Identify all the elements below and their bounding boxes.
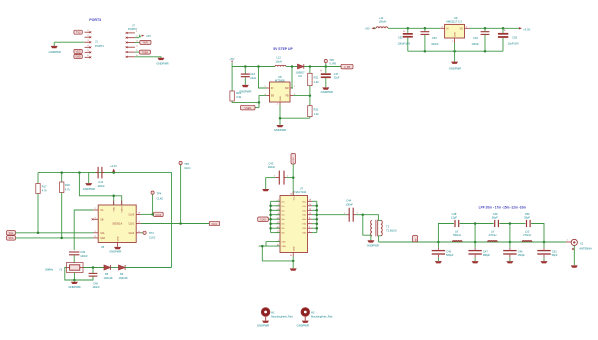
connector J7 pin 4: [126, 45, 139, 48]
wire OE tie-down: [259, 242, 294, 261]
svg-text:TP3: TP3: [149, 231, 154, 235]
text J7 PORT2: [128, 23, 137, 31]
svg-text:C44: C44: [346, 199, 351, 203]
IC U7 right pin stubs: [293, 201, 312, 256]
svg-text:C46: C46: [518, 249, 523, 253]
svg-text:L12: L12: [277, 56, 282, 60]
wire LPF top row risers: [438, 224, 544, 243]
ground GNDPWR (C45): [435, 261, 442, 263]
wire +5V rail to U9: [388, 27, 440, 29]
wire C44 node down to T1 secondary return: [363, 215, 371, 236]
wire U7 outputs to C44: [317, 214, 347, 216]
ground GNDPWR (Y2): [68, 280, 80, 289]
svg-text:PORT2: PORT2: [128, 27, 137, 31]
svg-text:GND: GND: [280, 96, 282, 101]
svg-text:VDDO: VDDO: [122, 206, 124, 213]
svg-text:100uH: 100uH: [379, 20, 387, 24]
svg-text:CLK0: CLK0: [155, 215, 161, 217]
capacitor C48 12pF: [451, 212, 459, 227]
svg-text:TP5: TP5: [184, 162, 189, 166]
wire U9 GND pin down: [454, 43, 456, 62]
inductor L10 270nH: [522, 229, 532, 242]
net flag SCL: [7, 231, 16, 236]
svg-text:560pF: 560pF: [446, 253, 454, 257]
capacitor C39 100nF: [69, 250, 88, 262]
svg-text:100nF: 100nF: [268, 165, 276, 169]
svg-text:R18: R18: [65, 183, 70, 187]
capacitor C50 39pF: [524, 212, 530, 227]
ground GNDPWR (C46): [506, 261, 513, 263]
svg-text:CLK0: CLK0: [128, 214, 134, 216]
svg-text:C50: C50: [525, 212, 530, 216]
connector J1 pin 4: [85, 45, 92, 48]
test point TP6: [324, 58, 336, 67]
svg-text:4: 4: [136, 45, 138, 47]
wire IN pin to rail: [259, 67, 267, 89]
svg-text:CLK0: CLK0: [260, 220, 266, 222]
svg-text:ANTENNA: ANTENNA: [579, 246, 592, 250]
junction: [37, 232, 40, 235]
svg-text:GNDPWR: GNDPWR: [109, 249, 121, 253]
svg-text:270nH: 270nH: [489, 233, 497, 237]
svg-text:CLK1: CLK1: [128, 224, 134, 226]
capacitor C55 10uF/16V: [498, 28, 519, 51]
capacitor C41 100nF: [91, 167, 114, 188]
svg-text:U5: U5: [101, 245, 105, 249]
junction: [292, 176, 295, 179]
svg-text:C52: C52: [398, 36, 403, 40]
IC U7 left pin numbers: [277, 200, 279, 247]
ground GNDPWR (T1): [367, 235, 379, 247]
wire output bus vertical: [316, 201, 318, 232]
junction: [60, 237, 63, 240]
wire VSEN node to EN pin: [255, 96, 267, 108]
wire +5V to rail: [232, 63, 275, 67]
svg-text:R22: R22: [314, 108, 319, 112]
svg-text:T2,6&3,6: T2,6&3,6: [386, 228, 397, 232]
net flag TX0: [74, 30, 82, 34]
svg-text:100nF: 100nF: [472, 42, 480, 46]
svg-text:R21: R21: [314, 75, 319, 79]
svg-text:J1: J1: [95, 40, 98, 44]
diode D4 1N5817: [296, 64, 306, 78]
ground GNDPWR (H2): [297, 321, 309, 328]
svg-text:GND: GND: [118, 236, 120, 241]
wire +3.3V to U7 VCC: [292, 164, 294, 196]
junction: [151, 213, 154, 216]
svg-text:CLK0: CLK0: [157, 196, 164, 200]
crystal Y2 26MHz: [45, 263, 83, 273]
svg-text:1: 1: [136, 31, 138, 33]
IC U7 left pin stubs: [276, 201, 280, 246]
svg-text:V_PB: V_PB: [329, 62, 336, 66]
junction: [78, 171, 81, 174]
net flag CLK0 (U7 input): [258, 217, 269, 222]
mounting pad H2: [301, 308, 333, 321]
wire R17 to SCL: [37, 194, 39, 233]
svg-text:270nH: 270nH: [523, 233, 531, 237]
ground GNDPWR (C17): [321, 87, 333, 94]
svg-text:U7: U7: [300, 187, 304, 191]
svg-text:MountingHole_Pad: MountingHole_Pad: [311, 315, 333, 318]
wire R19 to VSEN node: [232, 101, 259, 102]
wire FB pin to divider: [293, 95, 310, 97]
svg-text:100uF/16V: 100uF/16V: [398, 41, 411, 45]
ground GNDPWR (C41): [83, 173, 95, 192]
svg-text:GNDPWR: GNDPWR: [274, 128, 286, 132]
svg-text:X1: X1: [580, 242, 584, 246]
svg-text:VI: VI: [446, 29, 449, 31]
svg-text:C49: C49: [493, 212, 498, 216]
net flag VSEN: [241, 105, 256, 110]
svg-text:+5V: +5V: [230, 57, 235, 61]
test point TP4: [151, 191, 164, 214]
svg-text:100nF: 100nF: [80, 254, 88, 258]
supply +3.3V output arrow: [519, 27, 531, 31]
svg-text:D4: D4: [299, 74, 303, 78]
connector J7 pin 1: [126, 31, 139, 34]
junction nodes LPF: [437, 241, 545, 244]
svg-text:3: 3: [87, 40, 89, 42]
svg-text:EN: EN: [271, 96, 275, 98]
svg-text:1: 1: [87, 30, 89, 32]
ground GNDPWR (C51): [541, 261, 548, 263]
junction: [112, 195, 115, 198]
wire SW pin to rail: [292, 67, 293, 89]
svg-text:1N4148: 1N4148: [119, 277, 128, 280]
IC U7 input pin labels: [282, 201, 287, 248]
svg-text:LPF 20m - 17m -15m -12m -10m: LPF 20m - 17m -15m -12m -10m: [479, 206, 527, 210]
svg-text:4.7k: 4.7k: [65, 187, 71, 191]
wire J7 pin6 to ground: [135, 57, 161, 58]
antenna connector X1: [566, 239, 592, 250]
svg-text:GNDPWR: GNDPWR: [239, 89, 251, 93]
junction nodes output bus: [316, 205, 319, 230]
wire +3.3V rail: [38, 173, 172, 268]
wire crystal left pin to ground node: [65, 268, 75, 281]
wire crystal right pin: [83, 267, 104, 269]
svg-text:C17: C17: [334, 72, 339, 76]
svg-text:GNDPWR: GNDPWR: [156, 61, 168, 65]
svg-text:12: 12: [309, 213, 311, 215]
svg-text:U9: U9: [454, 16, 458, 20]
svg-text:16: 16: [309, 204, 311, 206]
svg-text:74ACT244: 74ACT244: [294, 190, 307, 194]
svg-text:56pF: 56pF: [552, 253, 558, 257]
capacitor C49 56pF: [492, 212, 499, 227]
svg-text:U8: U8: [278, 75, 282, 79]
svg-text:H2: H2: [311, 311, 315, 315]
inductor L8 550nH: [453, 229, 463, 242]
resistor R19: [230, 67, 242, 102]
wire input bus vertical: [270, 201, 272, 232]
svg-text:22uF: 22uF: [334, 76, 340, 80]
svg-text:100nF: 100nF: [431, 42, 439, 46]
wire VDD branch: [79, 173, 121, 205]
svg-text:CLK2: CLK2: [149, 235, 156, 239]
junction: [258, 101, 261, 104]
IC U5 SI5351A: [98, 205, 136, 243]
svg-text:L10: L10: [525, 229, 530, 233]
ground GNDPWR (U9): [449, 62, 461, 71]
net flag GND: [74, 54, 82, 58]
svg-text:L9: L9: [491, 229, 494, 233]
svg-text:22uF: 22uF: [250, 76, 256, 80]
text J1 PORT1: [95, 40, 104, 48]
svg-text:1.2k: 1.2k: [314, 80, 320, 84]
svg-text:VDD: VDD: [76, 51, 81, 54]
svg-text:GNDPWR: GNDPWR: [257, 323, 269, 327]
wire: [286, 66, 298, 68]
svg-text:TXP1: TXP1: [142, 42, 149, 45]
svg-text:GNDPWR: GNDPWR: [68, 285, 80, 289]
svg-text:GNDPWR: GNDPWR: [321, 90, 333, 94]
svg-text:C53: C53: [432, 36, 437, 40]
svg-text:C45: C45: [446, 249, 451, 253]
svg-text:C16: C16: [250, 72, 255, 76]
IC U7 right pin numbers: [290, 200, 311, 258]
connector J1 pin 3: [85, 40, 92, 43]
net flag TXP1: [135, 40, 151, 44]
capacitor C47 180pF: [468, 242, 490, 261]
wire SDA: [16, 237, 94, 239]
connector J1 pin 5: [85, 50, 92, 53]
net flag SDA: [7, 236, 16, 241]
svg-text:CLK1: CLK1: [184, 166, 191, 170]
ground GNDPWR (C47): [472, 261, 479, 263]
connector J1 pin 2: [85, 35, 92, 38]
svg-text:+: +: [504, 29, 506, 33]
connector J7 pin 5: [126, 50, 139, 53]
ground GNDPWR (U7): [290, 257, 297, 271]
svg-text:1: 1: [567, 240, 569, 242]
svg-text:100nF: 100nF: [97, 184, 105, 188]
svg-text:SCL: SCL: [9, 232, 14, 235]
svg-text:1N5817: 1N5817: [296, 70, 306, 74]
svg-text:12pF: 12pF: [451, 216, 457, 220]
svg-text:SI5351A: SI5351A: [112, 222, 122, 226]
svg-text:Y2: Y2: [59, 268, 63, 272]
wire: [111, 267, 119, 269]
capacitor C51 56pF: [537, 242, 558, 261]
wire U9 out rail: [470, 27, 519, 29]
svg-text:10uF/16V: 10uF/16V: [508, 41, 520, 45]
svg-text:4.7k: 4.7k: [42, 189, 48, 193]
supply +5V (J7 pin2): [135, 34, 151, 38]
svg-text:1.2k: 1.2k: [314, 112, 320, 116]
capacitor C52 100uF/16V: [398, 28, 413, 51]
svg-text:C41: C41: [98, 180, 103, 184]
net flag VDD: [74, 49, 82, 53]
wire net GND to J1 pin3: [54, 41, 84, 43]
svg-text:TP6: TP6: [329, 58, 334, 62]
svg-text:XB: XB: [100, 219, 104, 221]
svg-text:550nH: 550nH: [453, 233, 461, 237]
svg-text:150pF: 150pF: [518, 253, 526, 257]
svg-text:PORT1: PORT1: [95, 44, 104, 48]
wire T1 to LPF: [379, 236, 381, 242]
svg-text:7: 7: [309, 222, 310, 224]
svg-text:4: 4: [87, 45, 89, 47]
svg-text:2: 2: [87, 35, 89, 37]
capacitor C45 560pF: [432, 242, 454, 261]
svg-text:CLK2: CLK2: [128, 233, 134, 235]
svg-text:H1: H1: [271, 311, 275, 315]
svg-text:3: 3: [309, 231, 310, 233]
svg-text:C39: C39: [80, 250, 85, 254]
supply +5V: [230, 57, 235, 63]
svg-text:VCC: VCC: [293, 196, 295, 201]
net flag RF (vertical): [413, 236, 418, 242]
connector J7 pin 2: [126, 36, 139, 39]
svg-text:20: 20: [290, 193, 292, 195]
net flag CLK0: [141, 212, 163, 217]
svg-text:2: 2: [277, 104, 279, 106]
capacitor C43 100nF: [266, 161, 294, 184]
svg-text:5V STEP UP: 5V STEP UP: [273, 47, 293, 51]
svg-text:C40: C40: [93, 282, 98, 286]
svg-text:3.3k: 3.3k: [236, 95, 242, 99]
junction nodes LDO bottom rail: [424, 50, 487, 53]
svg-text:GNDPWR: GNDPWR: [367, 244, 379, 248]
svg-text:5: 5: [87, 50, 89, 52]
ground GNDPWR (U8): [274, 118, 286, 132]
diode D6 1N4148: [119, 265, 128, 280]
wire XA: [74, 210, 93, 250]
capacitor C44 100nF: [344, 199, 363, 222]
svg-text:C43: C43: [269, 161, 274, 165]
svg-text:PORT3: PORT3: [89, 18, 101, 22]
wire R22 bottom to GND node: [280, 105, 310, 118]
capacitor C53 100nF: [421, 28, 439, 51]
svg-text:J7: J7: [132, 23, 135, 27]
svg-text:14: 14: [309, 209, 311, 211]
svg-text:L8: L8: [455, 229, 458, 233]
connector J1 pin 1: [85, 30, 92, 33]
junction: [179, 222, 182, 225]
svg-text:C51: C51: [552, 249, 557, 253]
svg-text:VO: VO: [460, 29, 464, 31]
wire R18 to SDA: [61, 193, 63, 238]
svg-text:+3.3V: +3.3V: [110, 164, 117, 168]
svg-text:MountingHole_Pad: MountingHole_Pad: [271, 315, 293, 318]
wire VDD pin drop: [113, 196, 115, 205]
svg-text:AMS1117-3.3: AMS1117-3.3: [446, 20, 462, 24]
svg-text:GNDPWR: GNDPWR: [83, 187, 95, 191]
svg-text:VSEN: VSEN: [245, 107, 252, 110]
svg-text:9: 9: [309, 217, 310, 219]
svg-text:GNDPWR: GNDPWR: [49, 50, 61, 54]
junction nodes LPF top row: [474, 222, 511, 225]
wire input rows: [268, 201, 280, 232]
capacitor C40 100nF: [74, 268, 100, 290]
IC U8 pin stubs: [264, 86, 296, 105]
IC U9 pin stubs: [440, 26, 469, 43]
wire LPF main line: [379, 241, 566, 243]
net flag V_PB: [341, 64, 353, 69]
svg-text:TP4: TP4: [157, 191, 162, 195]
svg-text:+: +: [320, 69, 322, 73]
svg-text:T1: T1: [386, 225, 390, 229]
svg-text:1N4148: 1N4148: [104, 277, 113, 280]
svg-text:C55: C55: [512, 35, 517, 39]
svg-text:39pF: 39pF: [524, 216, 530, 220]
mounting pad H1: [261, 308, 293, 321]
junction: [279, 117, 282, 120]
svg-text:GND: GND: [455, 32, 457, 37]
svg-text:+5V: +5V: [146, 34, 151, 38]
svg-text:GND: GND: [75, 56, 81, 59]
svg-text:10: 10: [290, 255, 292, 257]
svg-text:56pF: 56pF: [492, 216, 498, 220]
inductor L12: [275, 56, 286, 67]
svg-text:GNDPWR: GNDPWR: [297, 323, 309, 327]
svg-text:VDD: VDD: [114, 206, 116, 211]
junction nodes LDO top rail: [407, 27, 505, 30]
IC U7 output pin labels: [293, 196, 306, 252]
connector J7 pin 3: [126, 41, 139, 44]
ground GNDPWR (H1): [257, 321, 269, 328]
IC U7 74ACT244: [280, 187, 308, 253]
svg-text:R19: R19: [236, 91, 241, 95]
svg-text:C54: C54: [473, 36, 478, 40]
wire: [304, 66, 341, 68]
resistor R22: [308, 96, 320, 119]
wire output rows: [312, 201, 317, 232]
inductor L11: [376, 16, 388, 29]
junction: [292, 260, 295, 263]
supply +3.3V pin: [110, 164, 117, 172]
junction nodes input bus: [269, 205, 272, 230]
test point TP5: [179, 161, 191, 223]
svg-text:6: 6: [87, 55, 89, 57]
inductor L9 270nH: [488, 229, 498, 242]
svg-text:1: 1: [294, 86, 296, 88]
junction: [112, 171, 115, 174]
svg-text:C47: C47: [483, 249, 488, 253]
svg-text:GND: GND: [293, 246, 295, 251]
svg-text:5: 5: [309, 226, 310, 228]
junction: [73, 279, 76, 282]
svg-text:C48: C48: [452, 212, 457, 216]
net flag +3.3V (vertical): [291, 154, 295, 165]
svg-text:1: 1: [452, 41, 454, 43]
ground GNDPWR (J7): [156, 58, 168, 66]
svg-text:MT3608: MT3608: [275, 78, 285, 82]
svg-text:D5: D5: [105, 273, 109, 276]
test point TP3: [141, 231, 156, 239]
svg-text:18: 18: [309, 200, 311, 202]
ground GNDPWR (C16): [239, 85, 251, 94]
resistor R18 4.7k: [60, 173, 71, 193]
junction nodes on +5V boost rail: [244, 65, 327, 68]
svg-text:TXEN: TXEN: [142, 51, 149, 54]
wire SCL: [16, 232, 94, 234]
capacitor C54 100nF: [472, 28, 490, 51]
svg-text:+5V: +5V: [365, 27, 370, 31]
svg-text:100nF: 100nF: [346, 202, 354, 206]
supply +5V (LDO input): [365, 27, 376, 31]
wire crystal case to ground node: [73, 273, 75, 281]
svg-text:XA: XA: [100, 209, 104, 212]
svg-text:FB: FB: [286, 96, 289, 98]
resistor R17 4.7k: [36, 173, 48, 194]
connector J1 pin 6: [85, 55, 92, 58]
IC U7 VCC pin stub: [290, 192, 293, 196]
svg-text:SDA: SDA: [9, 237, 14, 240]
svg-text:SDA: SDA: [100, 237, 105, 240]
junction: [309, 94, 312, 97]
